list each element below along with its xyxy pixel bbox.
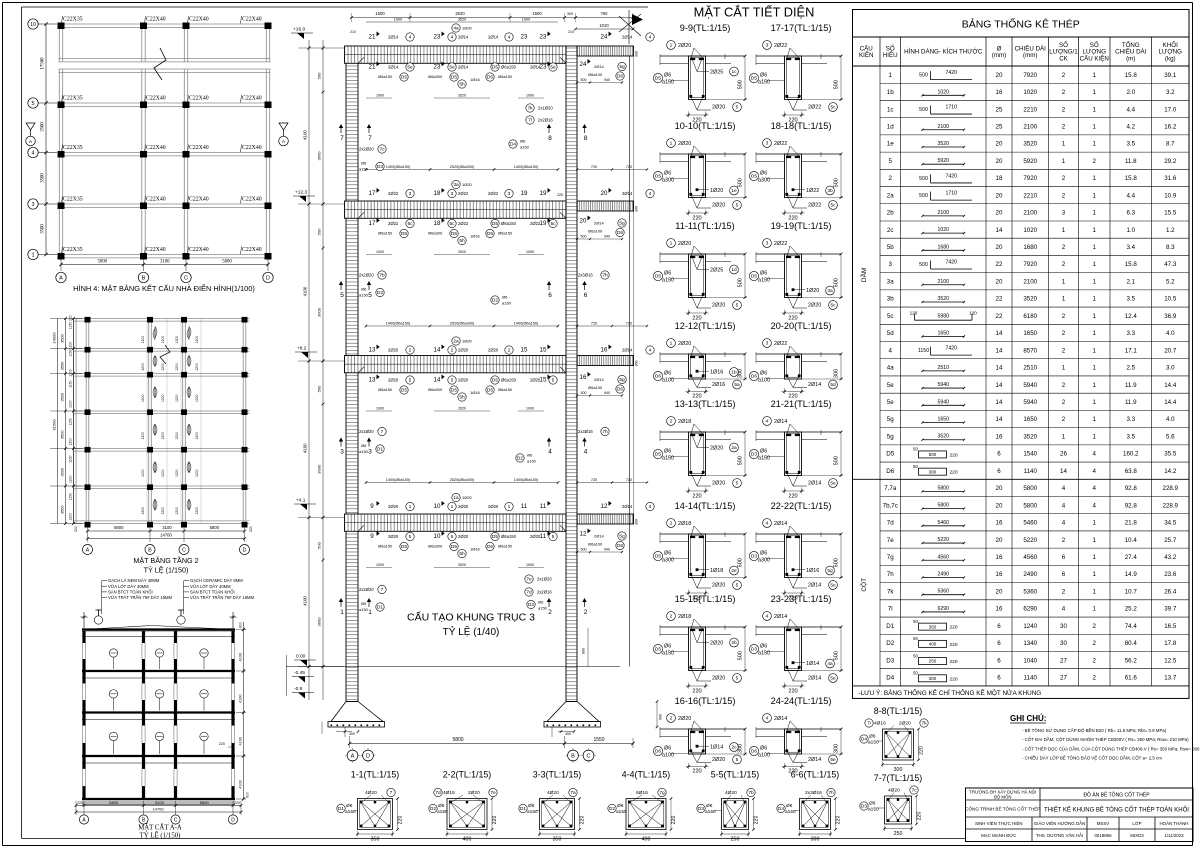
svg-text:19: 19	[540, 190, 547, 197]
svg-text:5: 5	[736, 583, 739, 589]
svg-text:1e: 1e	[731, 188, 737, 194]
svg-text:4a: 4a	[453, 26, 459, 32]
svg-text:720: 720	[626, 165, 632, 169]
svg-text:1000: 1000	[376, 407, 384, 411]
svg-text:a150: a150	[868, 740, 879, 746]
svg-text:2.5: 2.5	[1126, 365, 1135, 372]
svg-text:92.8: 92.8	[1125, 502, 1138, 509]
svg-text:1a: 1a	[453, 495, 459, 501]
svg-text:HIỆU: HIỆU	[883, 51, 898, 59]
notes GHI CHU	[1010, 714, 1200, 761]
svg-text:5d: 5d	[887, 330, 894, 337]
svg-text:1b: 1b	[731, 370, 737, 376]
svg-text:500: 500	[317, 541, 322, 548]
svg-text:3520: 3520	[458, 18, 466, 22]
svg-text:2490: 2490	[1023, 571, 1037, 578]
svg-text:5220: 5220	[1023, 537, 1037, 544]
svg-text:4: 4	[451, 35, 454, 41]
svg-text:8: 8	[548, 135, 552, 142]
svg-text:2490: 2490	[937, 571, 949, 577]
svg-text:LỚP: LỚP	[1132, 821, 1141, 826]
svg-text:Ø6a300: Ø6a300	[428, 544, 443, 549]
svg-text:10.5: 10.5	[1164, 296, 1177, 303]
svg-text:D5: D5	[451, 388, 457, 394]
svg-text:4: 4	[548, 449, 552, 456]
svg-text:3.2: 3.2	[1166, 89, 1175, 96]
svg-text:a150: a150	[359, 293, 369, 298]
floor framing plan HINH 4	[28, 16, 273, 293]
svg-text:3b: 3b	[887, 296, 894, 303]
svg-text:5h: 5h	[459, 395, 465, 401]
corridor beams	[577, 46, 634, 524]
svg-text:4Ø16: 4Ø16	[874, 721, 886, 727]
svg-text:23: 23	[521, 34, 528, 41]
svg-text:7h: 7h	[602, 273, 608, 279]
svg-text:1200: 1200	[195, 507, 199, 515]
svg-text:220: 220	[949, 676, 957, 682]
floor finish leader notes right	[184, 578, 255, 614]
svg-text:22: 22	[996, 261, 1003, 268]
svg-text:800: 800	[239, 622, 243, 628]
svg-text:2Ø20: 2Ø20	[710, 640, 723, 646]
svg-text:1Ø20: 1Ø20	[462, 495, 473, 500]
svg-text:10.7: 10.7	[1125, 588, 1138, 595]
svg-text:5: 5	[736, 105, 739, 111]
svg-text:1200: 1200	[69, 400, 73, 408]
frame grid bubbles A D B C	[345, 748, 596, 763]
svg-text:1650: 1650	[937, 417, 949, 423]
footing side dims	[582, 628, 663, 728]
svg-text:D6: D6	[617, 74, 623, 80]
svg-text:16.5: 16.5	[1164, 623, 1177, 630]
svg-text:300: 300	[635, 51, 639, 57]
svg-text:220: 220	[917, 812, 923, 821]
svg-text:1000: 1000	[526, 407, 534, 411]
svg-text:16: 16	[580, 374, 587, 381]
svg-text:7l: 7l	[528, 118, 532, 124]
svg-text:2: 2	[1062, 347, 1066, 354]
svg-text:MẶT CẮT TIẾT DIỆN: MẶT CẮT TIẾT DIỆN	[694, 5, 815, 20]
svg-text:3: 3	[340, 449, 344, 456]
svg-text:5c: 5c	[887, 313, 894, 320]
svg-text:1680: 1680	[937, 244, 949, 250]
svg-text:a150: a150	[538, 606, 548, 611]
svg-text:220: 220	[692, 494, 701, 500]
svg-text:940: 940	[604, 78, 610, 82]
svg-text:1: 1	[1093, 433, 1097, 440]
svg-text:4: 4	[409, 35, 412, 41]
svg-text:5: 5	[736, 303, 739, 309]
svg-text:D5: D5	[487, 544, 493, 550]
svg-text:2Ø22: 2Ø22	[774, 241, 787, 247]
svg-text:5: 5	[409, 534, 412, 540]
svg-text:23: 23	[540, 64, 547, 71]
svg-text:1Ø14: 1Ø14	[710, 745, 723, 751]
svg-text:0.00: 0.00	[296, 654, 306, 660]
svg-text:CẤU KIỆN: CẤU KIỆN	[1080, 55, 1109, 63]
beam section 10-10	[653, 121, 747, 222]
svg-text:1: 1	[1093, 554, 1097, 561]
svg-text:5d: 5d	[830, 382, 836, 388]
svg-text:7920: 7920	[1023, 261, 1037, 268]
svg-text:5e: 5e	[830, 676, 836, 682]
svg-text:11: 11	[540, 533, 547, 540]
svg-text:2: 2	[1093, 158, 1097, 165]
svg-text:1: 1	[1093, 210, 1097, 217]
svg-text:2Ø20: 2Ø20	[712, 303, 725, 309]
svg-text:Ø6: Ø6	[760, 371, 767, 377]
svg-text:7e: 7e	[490, 790, 496, 796]
svg-text:7,7a: 7,7a	[884, 485, 897, 492]
svg-text:13-13(TL:1/15): 13-13(TL:1/15)	[675, 399, 736, 409]
svg-text:2Ø20: 2Ø20	[458, 378, 469, 383]
svg-text:27.4: 27.4	[1125, 554, 1138, 561]
svg-text:1150: 1150	[69, 493, 73, 500]
svg-text:C22X35: C22X35	[63, 247, 83, 253]
svg-text:D1: D1	[338, 806, 344, 812]
svg-text:1000: 1000	[526, 563, 534, 567]
svg-text:7: 7	[390, 790, 393, 796]
svg-text:3a: 3a	[887, 278, 894, 285]
svg-text:4: 4	[649, 504, 652, 510]
svg-text:5800: 5800	[109, 800, 119, 805]
svg-text:10.9: 10.9	[1164, 192, 1177, 199]
svg-text:20: 20	[996, 537, 1003, 544]
svg-text:1: 1	[1093, 416, 1097, 423]
svg-text:1: 1	[1093, 192, 1097, 199]
svg-text:a150: a150	[616, 809, 627, 815]
svg-text:4.0: 4.0	[1166, 416, 1175, 423]
svg-text:D: D	[366, 754, 370, 760]
svg-text:720: 720	[591, 165, 597, 169]
svg-text:1Ø20: 1Ø20	[806, 288, 819, 294]
svg-text:1: 1	[1093, 588, 1097, 595]
svg-text:3: 3	[1062, 210, 1066, 217]
svg-text:DẦM: DẦM	[858, 268, 868, 282]
svg-text:2Ø20: 2Ø20	[808, 303, 821, 309]
svg-text:11.9: 11.9	[1125, 382, 1137, 389]
beam section 23-23	[749, 594, 843, 695]
svg-text:400: 400	[929, 641, 937, 646]
svg-text:50: 50	[913, 447, 918, 452]
svg-text:1000: 1000	[526, 94, 534, 98]
svg-text:D1: D1	[886, 623, 894, 630]
svg-text:Ø6a150: Ø6a150	[378, 387, 393, 392]
svg-text:Ø6: Ø6	[760, 449, 767, 455]
svg-text:C22X40: C22X40	[242, 17, 262, 23]
svg-text:D1: D1	[377, 605, 383, 611]
svg-text:Ø6a100: Ø6a100	[588, 72, 603, 77]
svg-text:20: 20	[996, 158, 1003, 165]
svg-text:1710: 1710	[945, 191, 957, 197]
svg-text:14700: 14700	[152, 807, 164, 812]
svg-text:20: 20	[996, 588, 1003, 595]
svg-text:2: 2	[1093, 640, 1097, 647]
svg-text:6.3: 6.3	[1126, 210, 1135, 217]
svg-text:2: 2	[1062, 244, 1066, 251]
svg-text:2Ø25: 2Ø25	[710, 69, 723, 75]
svg-text:14: 14	[434, 347, 441, 354]
svg-text:39.7: 39.7	[1164, 606, 1177, 613]
svg-text:5e: 5e	[830, 481, 836, 487]
svg-text:-0.9: -0.9	[294, 686, 303, 692]
svg-text:2: 2	[1093, 675, 1097, 682]
svg-text:Ø6a150: Ø6a150	[498, 231, 513, 236]
svg-text:1200: 1200	[69, 513, 73, 521]
beam section 21-21	[749, 399, 843, 500]
svg-text:1: 1	[1093, 244, 1097, 251]
svg-text:15-15(TL:1/15): 15-15(TL:1/15)	[675, 594, 736, 604]
svg-text:D2: D2	[430, 806, 436, 812]
svg-text:16: 16	[601, 347, 608, 354]
svg-text:220: 220	[949, 470, 957, 476]
svg-text:6: 6	[997, 640, 1001, 647]
svg-text:5a: 5a	[734, 382, 740, 388]
svg-text:1: 1	[1093, 261, 1097, 268]
svg-text:1550: 1550	[593, 737, 604, 743]
svg-text:GẠCH CERAMIC DÀY 8MM: GẠCH CERAMIC DÀY 8MM	[190, 578, 243, 583]
svg-text:5.2: 5.2	[1166, 278, 1175, 285]
svg-text:5800: 5800	[937, 485, 949, 491]
svg-text:4: 4	[1062, 606, 1066, 613]
svg-text:HÌNH 4: MẶT BẰNG KẾT CẤU NHÀ Đ: HÌNH 4: MẶT BẰNG KẾT CẤU NHÀ ĐIỂN HÌNH(1…	[73, 283, 255, 293]
svg-text:15: 15	[540, 377, 547, 384]
svg-text:2520(Ø6a300): 2520(Ø6a300)	[450, 322, 475, 326]
svg-text:GẠCH LÁ NEM DÀY 40MM: GẠCH LÁ NEM DÀY 40MM	[108, 578, 160, 583]
svg-text:20: 20	[996, 485, 1003, 492]
svg-text:D5: D5	[401, 544, 407, 550]
svg-text:7h: 7h	[602, 429, 608, 435]
svg-text:940: 940	[604, 391, 610, 395]
svg-text:3500: 3500	[61, 362, 65, 370]
svg-text:D5: D5	[751, 76, 757, 82]
svg-text:36.9: 36.9	[1164, 313, 1177, 320]
svg-text:1400(Ø6a150): 1400(Ø6a150)	[514, 478, 539, 482]
svg-text:120: 120	[910, 311, 918, 316]
svg-text:1340: 1340	[1023, 640, 1037, 647]
svg-text:D5: D5	[655, 554, 661, 560]
svg-text:4-4(TL:1/15): 4-4(TL:1/15)	[622, 770, 670, 780]
svg-text:MẶT CẮT A-A: MẶT CẮT A-A	[138, 824, 182, 832]
svg-text:Ø6: Ø6	[869, 801, 876, 807]
svg-text:2Ø14: 2Ø14	[808, 757, 821, 763]
svg-text:500: 500	[834, 178, 840, 187]
beam section 24-24	[749, 696, 843, 774]
svg-text:300: 300	[567, 12, 573, 16]
svg-text:- CỐT THÉP DỌC CỦA DẦM, CỦA CỘ: - CỐT THÉP DỌC CỦA DẦM, CỦA CỘT DÙNG THÉ…	[1022, 746, 1200, 751]
svg-text:14.4: 14.4	[1164, 399, 1177, 406]
svg-text:1040: 1040	[1023, 657, 1037, 664]
svg-text:Ø6: Ø6	[760, 644, 767, 650]
svg-text:5g: 5g	[887, 416, 894, 423]
beam section 13-13	[653, 399, 747, 500]
svg-text:1200: 1200	[161, 507, 165, 515]
column section 6-6	[777, 770, 842, 843]
svg-text:7: 7	[381, 587, 384, 593]
svg-text:Ø6: Ø6	[361, 443, 367, 448]
svg-text:3100: 3100	[162, 525, 172, 530]
svg-text:11-11(TL:1/15): 11-11(TL:1/15)	[675, 221, 734, 231]
svg-text:2210: 2210	[1023, 192, 1037, 199]
svg-text:CÔNG TRÌNH BÊ TÔNG CỐT THÉP: CÔNG TRÌNH BÊ TÔNG CỐT THÉP	[965, 805, 1040, 812]
svg-text:2b: 2b	[731, 640, 737, 646]
svg-text:2Ø22: 2Ø22	[774, 341, 787, 347]
svg-text:2Ø22: 2Ø22	[458, 221, 469, 226]
svg-text:760: 760	[601, 11, 609, 16]
svg-text:2: 2	[670, 716, 673, 722]
svg-text:2.0: 2.0	[1126, 89, 1135, 96]
svg-text:4560: 4560	[1023, 554, 1037, 561]
svg-text:3600: 3600	[317, 617, 322, 627]
svg-text:7: 7	[340, 135, 344, 142]
svg-text:8570: 8570	[1023, 347, 1037, 354]
svg-text:7920: 7920	[1023, 175, 1037, 182]
svg-text:1400(Ø6a150): 1400(Ø6a150)	[386, 478, 411, 482]
svg-text:220: 220	[788, 494, 797, 500]
svg-text:2Ø14: 2Ø14	[808, 676, 821, 682]
svg-text:220: 220	[949, 452, 957, 458]
svg-text:300: 300	[635, 206, 639, 212]
svg-text:1200: 1200	[161, 394, 165, 402]
svg-text:220: 220	[919, 746, 925, 755]
svg-text:7-7(TL:1/15): 7-7(TL:1/15)	[874, 773, 922, 783]
svg-text:D5: D5	[751, 274, 757, 280]
svg-text:1000: 1000	[376, 94, 384, 98]
svg-text:5e: 5e	[449, 65, 455, 71]
svg-text:D5: D5	[401, 231, 407, 237]
svg-text:4100: 4100	[303, 443, 308, 453]
elevation markers	[287, 27, 318, 699]
svg-text:14: 14	[434, 377, 441, 384]
svg-text:2: 2	[670, 614, 673, 620]
svg-text:2: 2	[548, 609, 552, 616]
svg-text:2Ø22: 2Ø22	[458, 191, 469, 196]
svg-text:350: 350	[553, 837, 562, 843]
svg-text:1140: 1140	[1024, 468, 1038, 475]
table rows	[853, 66, 1190, 686]
svg-text:20: 20	[996, 210, 1003, 217]
svg-text:1Ø20: 1Ø20	[462, 339, 473, 344]
svg-text:2Ø20: 2Ø20	[458, 534, 469, 539]
svg-text:3: 3	[451, 191, 454, 197]
beam section 15-15	[653, 594, 747, 695]
svg-text:39.1: 39.1	[1164, 72, 1177, 79]
svg-text:Ø6a150: Ø6a150	[501, 378, 517, 383]
svg-text:7c: 7c	[911, 788, 917, 794]
svg-text:1: 1	[1093, 571, 1097, 578]
svg-text:80.4: 80.4	[1125, 640, 1138, 647]
svg-text:1d: 1d	[731, 267, 737, 273]
svg-text:300: 300	[738, 744, 744, 753]
svg-text:800: 800	[582, 648, 586, 654]
svg-text:D5: D5	[492, 534, 498, 540]
svg-text:4100: 4100	[303, 286, 308, 296]
svg-text:1020: 1020	[937, 89, 949, 95]
svg-text:HOÀN THÀNH: HOÀN THÀNH	[1160, 821, 1189, 826]
svg-text:Ø6a100: Ø6a100	[588, 229, 603, 234]
svg-text:Ø6: Ø6	[664, 644, 671, 650]
footing B	[544, 702, 601, 738]
svg-text:CẤU TẠO KHUNG TRỤC 3: CẤU TẠO KHUNG TRỤC 3	[407, 611, 535, 624]
svg-text:300: 300	[738, 369, 744, 378]
svg-text:1: 1	[1093, 278, 1097, 285]
svg-text:400: 400	[463, 837, 472, 843]
svg-text:2: 2	[584, 609, 588, 616]
svg-text:5g: 5g	[619, 377, 625, 383]
svg-text:1: 1	[1062, 365, 1066, 372]
svg-text:Ø6: Ø6	[760, 551, 767, 557]
svg-text:3600: 3600	[317, 464, 322, 474]
svg-text:940: 940	[604, 235, 610, 239]
svg-text:2Ø14: 2Ø14	[458, 65, 469, 70]
svg-text:7b,7c: 7b,7c	[883, 502, 898, 509]
svg-text:Ø6: Ø6	[664, 271, 671, 277]
svg-text:220: 220	[949, 625, 957, 631]
svg-text:3: 3	[889, 261, 893, 268]
svg-text:47.3: 47.3	[1164, 261, 1177, 268]
svg-text:D2: D2	[492, 298, 498, 304]
svg-text:5e: 5e	[887, 399, 894, 406]
svg-text:2Ø14: 2Ø14	[808, 481, 821, 487]
svg-text:1: 1	[1093, 520, 1097, 527]
svg-text:1Ø20: 1Ø20	[462, 182, 473, 187]
svg-text:Ø6: Ø6	[760, 73, 767, 79]
svg-text:D5: D5	[401, 75, 407, 81]
svg-text:6: 6	[997, 623, 1001, 630]
svg-text:4.2: 4.2	[1126, 123, 1135, 130]
svg-text:2Ø22: 2Ø22	[808, 203, 821, 209]
svg-text:3: 3	[409, 191, 412, 197]
svg-text:2x2Ø20: 2x2Ø20	[359, 147, 374, 152]
svg-text:43.2: 43.2	[1164, 554, 1177, 561]
svg-text:2: 2	[1093, 657, 1097, 664]
svg-text:23.6: 23.6	[1164, 571, 1177, 578]
svg-text:2Ø20: 2Ø20	[488, 348, 499, 353]
svg-text:5: 5	[451, 378, 454, 384]
svg-text:HÌNH DÁNG- KÍCH THƯỚC: HÌNH DÁNG- KÍCH THƯỚC	[904, 49, 983, 56]
svg-text:C22X40: C22X40	[146, 197, 166, 203]
svg-text:TỶ LỆ (1/150): TỶ LỆ (1/150)	[144, 566, 189, 575]
svg-text:1000: 1000	[526, 250, 534, 254]
svg-text:1Ø16: 1Ø16	[470, 390, 481, 395]
svg-text:1: 1	[889, 72, 893, 79]
svg-text:50: 50	[913, 653, 918, 658]
svg-text:25: 25	[996, 123, 1003, 130]
svg-text:1: 1	[1093, 106, 1097, 113]
svg-text:7420: 7420	[945, 70, 957, 76]
svg-text:Ø6a150: Ø6a150	[501, 221, 517, 226]
svg-text:26: 26	[1060, 451, 1067, 458]
svg-text:27: 27	[1060, 657, 1067, 664]
svg-text:2: 2	[451, 348, 454, 354]
svg-text:2: 2	[1062, 72, 1066, 79]
svg-text:6: 6	[997, 657, 1001, 664]
svg-text:1200: 1200	[141, 469, 145, 477]
svg-text:2b: 2b	[887, 210, 894, 217]
svg-text:2Ø14: 2Ø14	[594, 377, 605, 382]
svg-text:25.2: 25.2	[1125, 606, 1138, 613]
svg-text:500: 500	[919, 262, 928, 268]
svg-text:4: 4	[1062, 485, 1066, 492]
svg-text:2Ø20: 2Ø20	[712, 105, 725, 111]
svg-text:4: 4	[1093, 451, 1097, 458]
svg-text:2Ø14: 2Ø14	[774, 521, 787, 527]
svg-text:220: 220	[949, 659, 957, 665]
svg-text:D5: D5	[401, 388, 407, 394]
svg-text:5800: 5800	[222, 260, 232, 265]
svg-text:+16.0: +16.0	[293, 27, 305, 33]
svg-text:2Ø14: 2Ø14	[774, 614, 787, 620]
